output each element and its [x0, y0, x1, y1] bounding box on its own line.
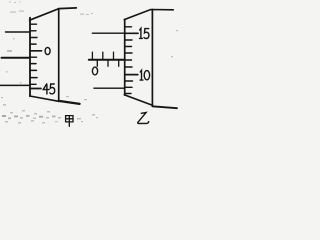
faint scan speckles — [1, 2, 178, 124]
thimble front/back boundary — [58, 9, 60, 102]
character yi — [138, 113, 149, 124]
thimble bottom tail — [152, 106, 177, 108]
sleeve top line — [92, 32, 124, 34]
sleeve datum line — [2, 57, 30, 59]
thimble bottom tail — [59, 101, 80, 104]
thimble ticks — [30, 24, 42, 88]
label 10 on thimble — [140, 70, 149, 80]
sleeve bottom line — [94, 87, 124, 89]
thimble bottom bevel — [30, 96, 59, 101]
main scale lower ticks — [97, 60, 118, 66]
thimble front/back boundary — [151, 10, 153, 106]
sleeve top line — [6, 31, 30, 33]
label 45 on thimble — [43, 84, 55, 94]
sleeve datum line — [89, 59, 125, 61]
thimble left edge — [29, 18, 31, 97]
thimble left edge — [124, 19, 126, 95]
label 0 on main scale — [92, 67, 97, 75]
sleeve bottom line — [0, 84, 30, 86]
thimble top bevel and top — [124, 10, 173, 20]
main scale upper ticks — [92, 52, 113, 60]
thimble top bevel and top — [30, 8, 77, 20]
label 15 on thimble — [140, 28, 149, 38]
character jia — [66, 116, 73, 127]
thimble bottom bevel — [124, 95, 152, 106]
thimble ticks — [125, 27, 138, 94]
label 0 on thimble — [45, 47, 50, 54]
